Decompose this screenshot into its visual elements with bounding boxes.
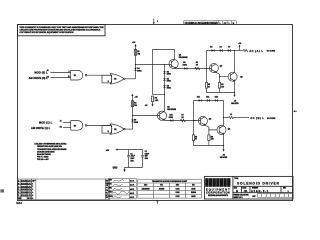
capacitor C1 xyxy=(127,150,136,168)
power -15 arrow ch1 xyxy=(145,102,154,107)
svg-text:K2: K2 xyxy=(47,76,49,78)
top edge drawing-number strip xyxy=(184,21,237,25)
title SOLENOID DRIVER xyxy=(234,178,279,186)
svg-text:D6: D6 xyxy=(220,47,222,49)
svg-text:-15: -15 xyxy=(145,105,149,107)
svg-text:QTY: QTY xyxy=(32,180,36,182)
wire base line ch1 to Q1 xyxy=(136,64,170,66)
svg-text:D11: D11 xyxy=(197,96,200,98)
svg-text:E: E xyxy=(18,192,20,194)
emitter rail ch1 xyxy=(207,92,235,94)
svg-text:DEC6534B: DEC6534B xyxy=(179,56,188,59)
svg-text:ECO-07: ECO-07 xyxy=(21,189,27,191)
emitter rail ch2 xyxy=(194,145,224,147)
svg-text:D670: D670 xyxy=(176,196,180,198)
svg-text:4-8-71: 4-8-71 xyxy=(130,196,134,199)
wire Q5 base node down to R8 xyxy=(193,121,195,135)
revision table bottom-left xyxy=(18,179,32,200)
svg-text:g: g xyxy=(213,181,216,187)
svg-text:CS: CS xyxy=(244,189,248,193)
svg-text:Q5: Q5 xyxy=(209,118,211,120)
svg-text:1K: 1K xyxy=(196,65,199,67)
svg-text:CS A5&B-0-1 SOLENOID DRIVER: CS A5&B-0-1 SOLENOID DRIVER xyxy=(185,22,218,25)
wire rail to -15 delayed arrow xyxy=(234,93,236,96)
zone continuation arrow right edge xyxy=(293,110,297,112)
svg-text:1: 1 xyxy=(157,21,159,23)
resistor R4 xyxy=(131,101,137,107)
diode D12 xyxy=(206,96,209,101)
svg-text:PRINTED CIRCUIT REV.: PRINTED CIRCUIT REV. xyxy=(234,195,250,197)
wire ground rail xyxy=(125,167,143,169)
svg-text:D664: D664 xyxy=(167,73,171,76)
svg-text:Q6: Q6 xyxy=(228,128,230,130)
proprietary note box xyxy=(18,25,106,36)
svg-text:UNLESS OTHERWISE INDICATED:: UNLESS OTHERWISE INDICATED: xyxy=(34,143,67,146)
svg-text:4-71: 4-71 xyxy=(27,180,30,183)
junction rail right xyxy=(234,92,235,93)
wire Q4 emitter line xyxy=(165,120,197,122)
junction R9 node xyxy=(208,129,209,130)
svg-text:IN3606: IN3606 xyxy=(191,192,196,194)
svg-text:10%: 10% xyxy=(145,158,149,160)
transistor Q4 xyxy=(157,105,176,120)
resistor R8 xyxy=(192,135,197,141)
svg-text:IN645: IN645 xyxy=(191,187,195,190)
resistor R7 xyxy=(180,115,185,122)
wire output line ch2 right xyxy=(233,117,249,119)
svg-text:TRANSISTOR & DIODE CONVERSION: TRANSISTOR & DIODE CONVERSION CHART xyxy=(152,180,188,183)
off page zigzag ch1 xyxy=(243,49,248,51)
or gate E1b xyxy=(110,74,125,84)
svg-text:4-6-71: 4-6-71 xyxy=(130,192,134,195)
wire diode chain vertical ch1 xyxy=(164,65,166,95)
junction Q5 base node xyxy=(193,120,194,121)
svg-text:+10: +10 xyxy=(238,43,241,45)
svg-text:D12: D12 xyxy=(206,96,209,98)
junction rail right ch2 xyxy=(223,145,224,146)
resistor R9 xyxy=(208,135,214,141)
node A junction xyxy=(135,64,136,65)
wire output line ch1 xyxy=(235,50,244,52)
svg-text:E2: E2 xyxy=(74,125,77,127)
power +5V feed arrow xyxy=(106,149,118,152)
svg-text:6-71: 6-71 xyxy=(27,186,30,188)
wire Q5 base node up to clamp row ch2 xyxy=(193,101,195,121)
diode D8 xyxy=(131,120,139,125)
svg-text:SOLENOID DRIVER: SOLENOID DRIVER xyxy=(237,181,280,185)
svg-text:D662: D662 xyxy=(176,188,180,190)
diode D4 xyxy=(134,67,142,72)
svg-text:470: 470 xyxy=(211,138,214,141)
svg-text:MOD (1) L: MOD (1) L xyxy=(39,122,53,125)
logo EQUIPMENT CORPORATION text xyxy=(206,187,230,196)
resistor R1 xyxy=(134,49,140,55)
digital logo blocks xyxy=(205,178,230,187)
svg-text:L1: L1 xyxy=(230,114,232,116)
junction chain bottom xyxy=(164,94,165,95)
svg-text:E1: E1 xyxy=(74,75,77,77)
transistor Q6 xyxy=(217,125,230,134)
wire Q2 base node down to R5 xyxy=(206,69,208,83)
wire output line ch2 xyxy=(224,117,229,119)
wire Q5 emitter to Q6 base xyxy=(205,125,217,130)
svg-text:ENG: ENG xyxy=(109,188,113,190)
power +10 arrow ch2 bias xyxy=(131,94,138,99)
svg-text:D13: D13 xyxy=(215,96,218,98)
transistor Q2 xyxy=(209,64,222,73)
svg-text:ECO-02: ECO-02 xyxy=(21,183,27,185)
svg-text:E1=DEC7400N: E1=DEC7400N xyxy=(37,153,51,156)
svg-text:a: a xyxy=(224,181,227,187)
node B junction xyxy=(132,115,133,116)
nand gate E2a xyxy=(71,121,87,131)
svg-text:D: D xyxy=(18,189,20,191)
drawing border frame xyxy=(18,25,293,201)
network box ch1 xyxy=(102,75,112,83)
svg-text:4-5-71: 4-5-71 xyxy=(130,188,134,191)
resistor R5 xyxy=(205,83,210,89)
wire Q3 emitter to rail xyxy=(234,81,236,93)
svg-text:5: 5 xyxy=(32,195,33,197)
svg-text:DEC6534B: DEC6534B xyxy=(142,187,151,190)
resistor R6 xyxy=(218,83,224,89)
wire R9 to rail ch2 xyxy=(208,141,210,146)
svg-text:A5&B-0-1: A5&B-0-1 xyxy=(251,189,269,193)
svg-text:DELAYED: DELAYED xyxy=(220,156,228,159)
wire E1a output to E1b OR input xyxy=(87,74,110,76)
wire Q4 collector up to ch1 junction xyxy=(163,95,165,112)
svg-text:REV.: REV. xyxy=(283,187,287,189)
svg-text:ECO-12: ECO-12 xyxy=(21,195,27,197)
wire E2b output to node B xyxy=(125,128,132,130)
title block outline xyxy=(204,176,293,199)
svg-text:D662: D662 xyxy=(183,65,187,67)
wire Q1 emitter line xyxy=(176,68,210,70)
sheet and dist row xyxy=(234,194,293,199)
svg-text:B: B xyxy=(236,189,238,193)
svg-text:+5V: +5V xyxy=(106,150,110,152)
wire Q1 collector loop xyxy=(153,50,175,95)
power +10 arrow output ch1 xyxy=(238,43,241,51)
power -15 DELAYED arrow ch2 xyxy=(220,149,228,159)
svg-text:750: 750 xyxy=(134,105,137,107)
svg-text:COPYRIGHT 1971 BY DIGITAL EQUI: COPYRIGHT 1971 BY DIGITAL EQUIPMENT CORP… xyxy=(19,31,74,34)
junction R6 node xyxy=(219,76,220,77)
svg-text:CHK: CHK xyxy=(109,184,113,186)
resistor R3 xyxy=(195,62,200,70)
svg-text:8-71: 8-71 xyxy=(27,189,30,191)
svg-text:AC (A) L: AC (A) L xyxy=(249,49,263,53)
junction Q2 base node xyxy=(206,68,207,69)
parts list strip xyxy=(32,179,110,200)
wire R9 drop xyxy=(208,130,210,135)
diode D10 xyxy=(169,115,173,122)
svg-text:DRN: DRN xyxy=(109,179,112,181)
nand gate E1a xyxy=(68,70,87,80)
svg-text:ECO-01: ECO-01 xyxy=(21,181,27,183)
diode D3 xyxy=(163,85,170,89)
svg-text:3: 3 xyxy=(32,189,33,191)
diode D6 xyxy=(220,47,223,52)
svg-text:E2: E2 xyxy=(114,129,117,131)
network box ch2 xyxy=(102,126,112,134)
svg-text:D664: D664 xyxy=(167,87,171,90)
transistor Q1 xyxy=(169,55,188,69)
wire R8 to rail ch2 xyxy=(193,141,195,146)
svg-text:D5: D5 xyxy=(210,47,212,49)
svg-text:1-72: 1-72 xyxy=(27,195,30,197)
svg-text:D664: D664 xyxy=(137,69,142,72)
svg-text:DIODES ARE D664: DIODES ARE D664 xyxy=(37,150,55,153)
diode D2 xyxy=(163,78,170,82)
wire vertical bias line ch2 xyxy=(132,95,134,129)
junction diode chain top xyxy=(164,64,165,65)
svg-text:20%: 20% xyxy=(130,160,134,162)
clamp diode row ch1 wire xyxy=(207,50,235,52)
svg-text:2N4258: 2N4258 xyxy=(159,187,164,190)
svg-text:RESISTORS ARE 1/4W, 5%: RESISTORS ARE 1/4W, 5% xyxy=(37,145,62,148)
resistor R2 xyxy=(151,96,158,102)
junction output node ch1 xyxy=(234,50,235,51)
junction output node ch2 xyxy=(223,117,224,118)
wire input AM DRIVE(1) to E2 NAND xyxy=(63,127,71,129)
diode D1 xyxy=(163,71,170,75)
svg-text:d: d xyxy=(205,181,208,187)
svg-text:+10: +10 xyxy=(132,42,136,44)
diode D9 xyxy=(183,62,187,69)
svg-text:AM DRIVE (0) L: AM DRIVE (0) L xyxy=(29,77,49,80)
wire Q2 base node up to clamp row xyxy=(206,51,208,69)
svg-text:750: 750 xyxy=(137,54,140,56)
svg-text:4: 4 xyxy=(32,191,33,194)
transistor and diode conversion chart xyxy=(138,179,202,198)
wire Q6 collector to output node ch2 xyxy=(223,118,225,126)
svg-text:D664: D664 xyxy=(134,121,139,124)
svg-text:36: 36 xyxy=(208,86,210,88)
svg-text:F: F xyxy=(18,195,20,197)
wire Q3 collector to output node xyxy=(234,51,236,73)
svg-text:2: 2 xyxy=(32,186,33,188)
wire clamp row right drop to output line ch2 xyxy=(223,101,225,118)
size code number rev row xyxy=(234,187,290,193)
svg-text:TRANSISTORS ARE DEC6534B: TRANSISTORS ARE DEC6534B xyxy=(37,148,67,151)
svg-text:TITLE: TITLE xyxy=(234,178,238,180)
svg-text:E1: E1 xyxy=(114,79,117,81)
wire input AM DRIVE(0) to E1 NAND xyxy=(51,77,71,79)
power +10 arrow ch1 bias xyxy=(132,42,137,46)
svg-text:B: B xyxy=(18,183,20,185)
svg-text:CORPORATION: CORPORATION xyxy=(206,191,230,195)
transistor Q5 xyxy=(198,116,211,125)
signature block xyxy=(108,179,136,200)
svg-text:D7: D7 xyxy=(228,47,230,49)
wire Q6 emitter to rail xyxy=(223,134,225,145)
diode D11 xyxy=(197,96,201,101)
svg-text:AM DRIVE (1) L: AM DRIVE (1) L xyxy=(31,127,51,130)
svg-text:DIST: DIST xyxy=(252,196,255,198)
diode D7 xyxy=(228,47,231,52)
wire rail to -15 delayed arrow ch2 xyxy=(223,146,225,150)
general notes text block xyxy=(34,143,67,162)
svg-text:PIN 14 = +5V: PIN 14 = +5V xyxy=(37,158,49,161)
wire +5V rail xyxy=(118,149,143,151)
wire chain bottom horizontal xyxy=(153,94,165,96)
wire R6 to rail xyxy=(219,88,221,92)
svg-text:C: C xyxy=(18,186,20,188)
wire input MOD(1) to E2 NAND xyxy=(63,122,71,124)
svg-text:K1: K1 xyxy=(60,127,62,129)
svg-text:RT: RT xyxy=(106,195,108,197)
svg-text:NO CONN: NO CONN xyxy=(267,118,276,120)
wire input MOD(0) to E1 NAND xyxy=(51,72,71,74)
clamp diode row ch2 wire xyxy=(194,100,224,102)
diode D13 xyxy=(215,96,218,101)
svg-text:Q3: Q3 xyxy=(240,76,242,78)
svg-text:THIS SCHEMATIC IS FURNISHED ON: THIS SCHEMATIC IS FURNISHED ONLY FOR TES… xyxy=(19,26,104,29)
svg-text:J2: J2 xyxy=(47,70,49,72)
svg-text:1.5K: 1.5K xyxy=(155,100,159,102)
paper punch mark left margin xyxy=(0,189,4,192)
svg-text:1K: 1K xyxy=(181,117,184,119)
svg-text:DELAYED: DELAYED xyxy=(231,102,239,105)
svg-text:9-71: 9-71 xyxy=(27,192,30,194)
svg-text:J1: J1 xyxy=(60,120,62,122)
svg-text:ECO-09: ECO-09 xyxy=(21,192,27,194)
svg-text:DEC6534B: DEC6534B xyxy=(167,108,176,111)
svg-text:AC (B) L: AC (B) L xyxy=(250,116,264,120)
svg-text:PT: PT xyxy=(106,188,108,190)
capacitor C2 xyxy=(141,150,150,168)
svg-text:36: 36 xyxy=(195,139,197,141)
zone pointer arrow on top frame xyxy=(153,19,159,25)
svg-text:4-2-71: 4-2-71 xyxy=(130,184,134,187)
wire base line ch2 to Q4 xyxy=(133,115,158,117)
svg-text:10: 10 xyxy=(68,76,70,78)
transistor Q3 xyxy=(228,72,242,81)
power -15 DELAYED arrow ch1 xyxy=(231,95,239,105)
diode D5 xyxy=(210,47,214,52)
wire vertical bias line ch1 xyxy=(135,46,137,79)
svg-text:470: 470 xyxy=(221,85,224,88)
svg-text:+10: +10 xyxy=(134,96,138,98)
wire E1b output to node A xyxy=(125,78,135,80)
svg-text:NO CONN: NO CONN xyxy=(267,51,276,53)
svg-text:Q2: Q2 xyxy=(220,65,222,67)
wire Q5 base stub xyxy=(194,120,199,122)
wire E2a output jog to E2b OR input xyxy=(87,124,110,126)
svg-text:D662: D662 xyxy=(169,117,173,119)
wire R6 drop xyxy=(219,77,221,83)
svg-text:D-B-1: D-B-1 xyxy=(16,203,22,205)
svg-text:CIRCUITS ARE PROPRIETARY IN NA: CIRCUITS ARE PROPRIETARY IN NATURE AND S… xyxy=(19,29,101,32)
wire Q2 emitter to Q3 base xyxy=(216,72,228,76)
chart pointer arrow below bottom frame xyxy=(156,200,158,204)
svg-text:D664: D664 xyxy=(167,80,171,83)
svg-text:D664: D664 xyxy=(176,191,180,194)
svg-text:1: 1 xyxy=(32,183,33,185)
ground arrow xyxy=(113,168,126,173)
svg-text:GND: GND xyxy=(113,168,118,170)
svg-text:SHEET 1 OF 1: SHEET 1 OF 1 xyxy=(234,197,243,199)
solenoid coil L1 xyxy=(229,114,234,118)
or gate E2b xyxy=(110,124,125,134)
svg-text:4-2-71: 4-2-71 xyxy=(130,180,134,183)
svg-text:IN963: IN963 xyxy=(191,196,195,198)
svg-text:5-71: 5-71 xyxy=(27,183,30,185)
wire R5 to rail xyxy=(206,88,208,92)
